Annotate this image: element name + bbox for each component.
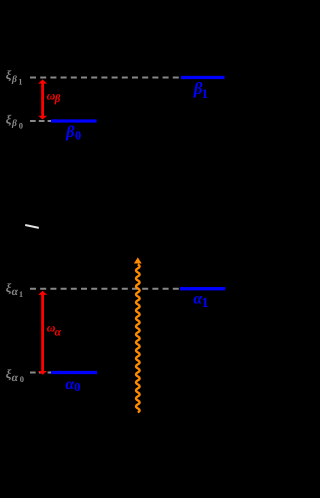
- level alpha0 (blue): [51, 371, 97, 374]
- transition arrow omega_alpha (red): [38, 291, 47, 375]
- svg-text:β: β: [11, 75, 17, 85]
- axis break tick: [25, 225, 39, 228]
- label beta1: [193, 79, 208, 101]
- svg-text:0: 0: [75, 129, 81, 143]
- label omega_alpha: [47, 320, 62, 338]
- svg-text:β: β: [11, 119, 17, 129]
- svg-text:1: 1: [202, 86, 209, 101]
- svg-text:0: 0: [74, 380, 80, 394]
- svg-text:ξ: ξ: [6, 68, 12, 82]
- label omega_beta: [47, 88, 61, 104]
- label alpha1: [193, 290, 208, 311]
- label xi_beta1: [6, 68, 23, 86]
- transition arrow omega_beta (red): [38, 79, 47, 119]
- svg-text:α: α: [12, 286, 19, 298]
- node xi_alpha0 dashed segment: [30, 372, 51, 374]
- label xi_alpha1: [6, 281, 23, 299]
- photon wavy arrow (orange): [134, 257, 142, 412]
- svg-text:β: β: [65, 122, 75, 141]
- level beta0 (blue): [51, 119, 97, 122]
- svg-text:0: 0: [19, 120, 23, 130]
- label xi_alpha0: [6, 367, 24, 384]
- svg-text:α: α: [12, 372, 19, 384]
- svg-text:β: β: [54, 93, 61, 105]
- label beta0: [65, 122, 81, 143]
- label xi_beta0: [6, 113, 23, 131]
- node xi_beta0 dashed segment: [30, 120, 51, 122]
- level alpha1 (blue): [180, 287, 225, 290]
- level beta1 (blue): [181, 76, 225, 79]
- svg-text:1: 1: [202, 296, 209, 311]
- svg-text:ξ: ξ: [6, 113, 12, 127]
- svg-text:0: 0: [20, 374, 24, 384]
- svg-text:α: α: [55, 327, 62, 339]
- label alpha0: [65, 376, 80, 394]
- svg-text:1: 1: [18, 76, 22, 86]
- node xi_alpha1 dashed level line: [30, 288, 179, 290]
- node xi_beta1 dashed level line: [30, 77, 179, 79]
- svg-text:1: 1: [19, 289, 23, 299]
